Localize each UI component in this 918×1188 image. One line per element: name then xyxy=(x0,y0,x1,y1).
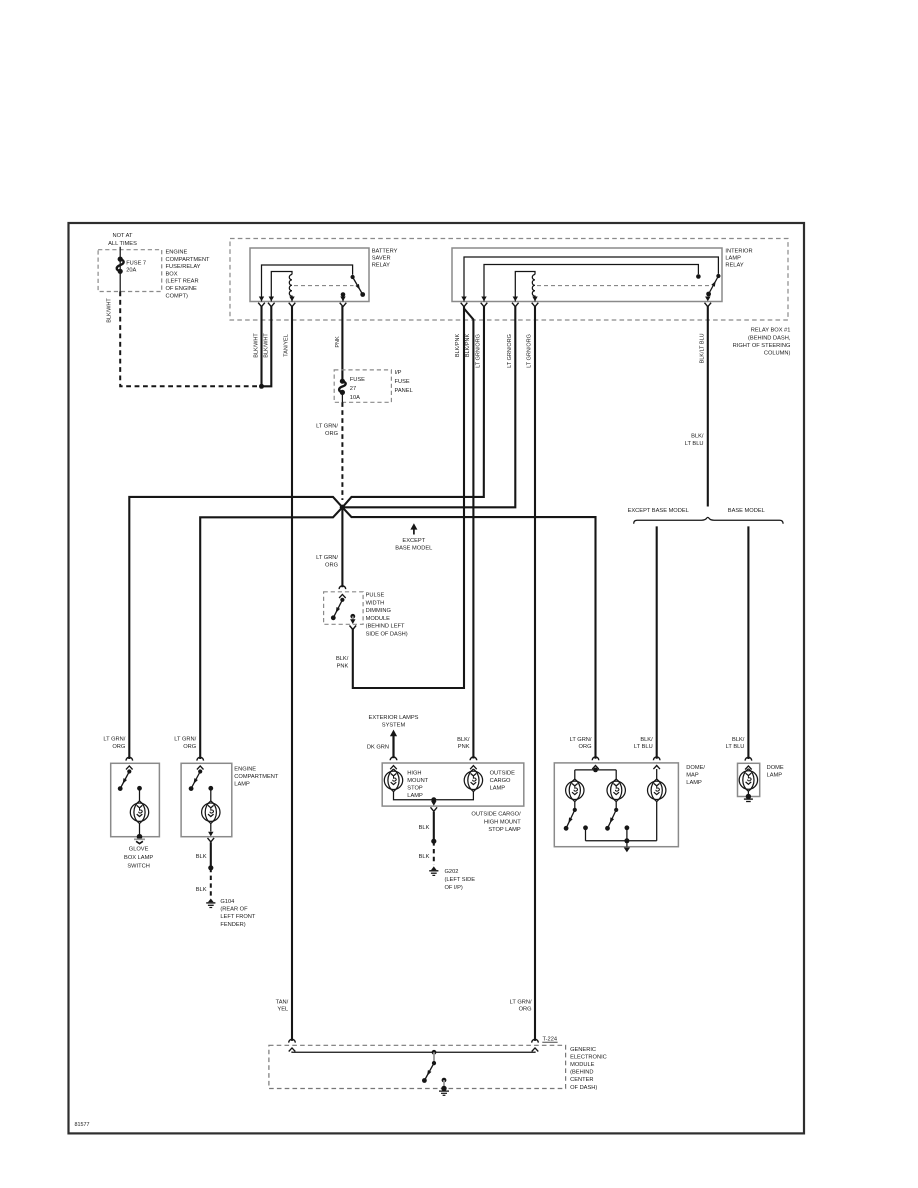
svg-text:LAMP: LAMP xyxy=(725,256,741,262)
svg-text:CARGO: CARGO xyxy=(490,778,511,784)
glove box lamp xyxy=(130,801,148,824)
svg-text:BLK/PNK: BLK/PNK xyxy=(465,334,471,358)
wire label DK GRN xyxy=(367,745,389,751)
glove box lamp switch box xyxy=(111,763,160,836)
svg-text:BLK/: BLK/ xyxy=(336,656,349,662)
wire BLK engine lamp to splice xyxy=(210,842,212,868)
svg-text:LAMP: LAMP xyxy=(767,773,783,779)
wire label LT GRN/ORG (engine lamp) xyxy=(174,737,196,751)
dome/map ground node xyxy=(624,838,630,852)
dome/map switch 1 contact xyxy=(583,825,588,840)
glove box lamp case ground xyxy=(134,824,145,844)
label RELAY BOX #1 xyxy=(733,328,791,357)
svg-text:COLUMN): COLUMN) xyxy=(764,351,791,357)
svg-text:G202: G202 xyxy=(445,869,459,875)
svg-text:LT GRN/: LT GRN/ xyxy=(570,737,592,743)
svg-text:GLOVE: GLOVE xyxy=(129,847,149,853)
battery relay actuation dashed link xyxy=(294,285,354,287)
glove box lamp top contact xyxy=(137,786,142,801)
svg-text:G104: G104 xyxy=(220,899,234,905)
svg-text:BLK/WHT: BLK/WHT xyxy=(106,298,112,323)
interior relay pin 4 xyxy=(532,297,539,307)
GEM switch xyxy=(422,1061,436,1083)
svg-text:CENTER: CENTER xyxy=(570,1077,593,1083)
svg-text:COMPT): COMPT) xyxy=(166,293,189,299)
outside cargo lamp xyxy=(464,769,482,792)
wire label BLK/LT BLU (dome/map) xyxy=(634,737,653,750)
svg-text:PNK: PNK xyxy=(337,663,349,669)
wire LT GRN/ORG to glove box switch xyxy=(129,497,342,759)
svg-text:PNK: PNK xyxy=(458,744,470,750)
label HIGH MOUNT STOP LAMP xyxy=(407,771,428,800)
high mount stop lamp xyxy=(384,769,402,792)
svg-text:RELAY: RELAY xyxy=(725,263,743,269)
engine lamp xyxy=(202,801,220,824)
fuse F7 xyxy=(117,257,124,274)
svg-text:FUSE: FUSE xyxy=(395,379,410,385)
interior relay pin 3 xyxy=(512,297,519,307)
splice BLK cargo xyxy=(431,839,436,844)
wire label BLK/PNK (cargo) xyxy=(457,737,470,750)
svg-text:MOUNT: MOUNT xyxy=(407,778,428,784)
GEM ground contact xyxy=(442,1078,447,1087)
svg-text:LT GRN/: LT GRN/ xyxy=(316,555,338,561)
wire BLK to G202 (dashed) xyxy=(433,841,435,865)
splice X junction xyxy=(340,505,345,510)
engine lamp top contact xyxy=(208,786,213,801)
svg-text:OF DASH): OF DASH) xyxy=(570,1085,597,1091)
svg-text:LT BLU: LT BLU xyxy=(685,441,704,447)
wire label TAN/YEL (bottom) xyxy=(276,999,289,1012)
svg-text:BLK/WHT: BLK/WHT xyxy=(253,333,259,358)
svg-text:ORG: ORG xyxy=(112,744,125,750)
svg-text:LT GRN/ORG: LT GRN/ORG xyxy=(527,334,533,368)
svg-text:HIGH MOUNT: HIGH MOUNT xyxy=(484,819,521,825)
svg-text:(LEFT SIDE: (LEFT SIDE xyxy=(445,877,476,883)
battery relay internal wire pin2 to coil xyxy=(271,272,292,302)
label FUSE 7 20A xyxy=(126,260,146,273)
wire LT GRN/ORG to dome/map lamp xyxy=(342,507,595,759)
wire BLK/WHT pin2 to splice xyxy=(262,306,272,386)
middle box bottom rail xyxy=(394,792,474,800)
svg-text:PANEL: PANEL xyxy=(395,388,413,394)
wire LT GRN/ORG to relay pin3 xyxy=(342,306,515,507)
dome lamp xyxy=(739,769,757,792)
svg-text:SWITCH: SWITCH xyxy=(127,864,149,870)
wire label BLK/LT BLU (dome) xyxy=(726,737,745,750)
svg-text:(BEHIND: (BEHIND xyxy=(570,1070,593,1076)
svg-text:LT GRN/ORG: LT GRN/ORG xyxy=(507,334,513,368)
wire label TAN/YEL xyxy=(284,334,290,357)
wire label LT GRN/ORG pin4 xyxy=(527,334,533,368)
interior relay stationary contact xyxy=(696,274,701,279)
svg-text:BASE MODEL: BASE MODEL xyxy=(395,546,432,552)
svg-text:COMPARTMENT: COMPARTMENT xyxy=(234,774,279,780)
svg-text:HIGH: HIGH xyxy=(407,771,421,777)
wire LT GRN/ORG to engine lamp xyxy=(200,507,342,759)
dome/map pin2 connector xyxy=(653,757,660,769)
svg-text:WIDTH: WIDTH xyxy=(366,600,385,606)
svg-text:BLK: BLK xyxy=(419,854,430,860)
battery relay pin 2 xyxy=(268,297,275,307)
wire BLK/WHT pin1 to splice xyxy=(260,306,262,386)
svg-text:ORG: ORG xyxy=(579,744,592,750)
svg-text:(BEHIND DASH,: (BEHIND DASH, xyxy=(748,335,791,341)
label EXCEPT BASE MODEL xyxy=(628,508,689,514)
wire label BLK (cargo 2) xyxy=(419,854,430,860)
wire label BLK/PNK (module) xyxy=(336,656,349,670)
splice BLK engine xyxy=(208,865,213,870)
GEM ground xyxy=(439,1086,449,1096)
dimming module switch xyxy=(331,598,345,620)
arrow to exterior lamps system xyxy=(390,730,397,759)
dimming module connector xyxy=(339,586,346,598)
wire label BLK (engine 2) xyxy=(196,887,207,893)
svg-text:ALL TIMES: ALL TIMES xyxy=(108,241,137,247)
GEM switch node xyxy=(432,1050,437,1063)
svg-text:ORG: ORG xyxy=(325,562,338,568)
svg-text:OUTSIDE: OUTSIDE xyxy=(490,771,515,777)
wire label LT GRN/ORG (bottom) xyxy=(510,999,532,1012)
generic electronic module box (dashed) xyxy=(269,1045,566,1088)
ground G202 xyxy=(429,866,438,875)
svg-text:(REAR OF: (REAR OF xyxy=(220,907,248,913)
arrow EXCEPT BASE MODEL (branch marker) xyxy=(395,523,432,551)
wire label LT GRN/ORG (dome/map) xyxy=(570,737,592,750)
svg-text:NOT AT: NOT AT xyxy=(112,233,133,239)
engine lamp switch xyxy=(189,769,203,791)
dome/map switch 2 contact xyxy=(625,825,630,840)
label DOME/MAP LAMP xyxy=(686,765,705,786)
wire label BLK/LT BLU (vertical) xyxy=(699,333,705,363)
label OUTSIDE CARGO/HIGH MOUNT STOP LAMP xyxy=(471,812,521,834)
svg-text:SAVER: SAVER xyxy=(372,256,391,262)
svg-text:LT GRN/: LT GRN/ xyxy=(174,737,196,743)
label GLOVE BOX LAMP SWITCH xyxy=(124,847,153,870)
svg-text:RIGHT OF STEERING: RIGHT OF STEERING xyxy=(733,343,791,349)
engine lamp output pin xyxy=(208,832,215,842)
svg-text:BATTERY: BATTERY xyxy=(372,248,398,254)
dome/map switch 1 xyxy=(564,802,577,831)
wire BLK to G104 (dashed) xyxy=(210,868,212,897)
interior relay pin 2 xyxy=(481,297,488,307)
wire label BLK (engine 1) xyxy=(196,854,207,860)
wire label BLK/WHT 1 xyxy=(253,333,259,358)
wire BLK/LT BLU pin5 to brace xyxy=(707,306,709,507)
svg-text:DIMMING: DIMMING xyxy=(366,608,391,614)
svg-text:EXTERIOR LAMPS: EXTERIOR LAMPS xyxy=(369,715,419,721)
battery relay pin 4 xyxy=(340,297,347,307)
interior relay pin 1 xyxy=(461,297,468,307)
wire label BLK/PNK 1 xyxy=(455,334,461,358)
interior lamp relay U-box xyxy=(452,248,722,302)
wire BLK/PNK pin1 to outside cargo lamp xyxy=(464,309,473,759)
dome/map lamp 2 xyxy=(607,779,625,802)
dome/map lamp 3 xyxy=(648,779,666,802)
svg-text:OF I/P): OF I/P) xyxy=(445,885,463,891)
svg-text:BLK/: BLK/ xyxy=(457,737,470,743)
svg-text:LT BLU: LT BLU xyxy=(726,744,745,750)
svg-text:BOX: BOX xyxy=(166,271,178,277)
svg-text:OUTSIDE CARGO/: OUTSIDE CARGO/ xyxy=(471,812,521,818)
battery relay coil xyxy=(289,275,292,302)
svg-text:LT BLU: LT BLU xyxy=(634,744,653,750)
svg-text:I/P: I/P xyxy=(395,370,402,376)
label FUSE 27 10A xyxy=(350,377,365,401)
wire LT GRN/ORG relay pin4 to GEM xyxy=(534,306,536,1041)
svg-text:DOME: DOME xyxy=(767,765,784,771)
label OUTSIDE CARGO LAMP xyxy=(490,771,515,792)
GEM internal rail xyxy=(292,1051,535,1054)
wire label LT GRN/ORG (upper) xyxy=(316,424,338,438)
svg-text:BLK: BLK xyxy=(196,887,207,893)
dome/map pin1 connector xyxy=(592,757,599,769)
svg-text:LEFT FRONT: LEFT FRONT xyxy=(220,914,255,920)
label ENGINE COMPARTMENT FUSE/RELAY BOX xyxy=(166,250,211,300)
svg-text:STOP LAMP: STOP LAMP xyxy=(488,827,521,833)
splice junction BLK/WHT xyxy=(259,384,264,389)
wire label BLK/WHT 2 xyxy=(264,333,270,358)
wire PNK relay to fuse panel xyxy=(341,306,343,380)
wire label BLK (cargo 1) xyxy=(419,825,430,831)
svg-text:10A: 10A xyxy=(350,395,360,401)
svg-text:FENDER): FENDER) xyxy=(220,922,245,928)
interior relay switch xyxy=(706,274,721,301)
high mount lamp connector xyxy=(390,757,397,769)
svg-text:INTERIOR: INTERIOR xyxy=(725,248,752,254)
dome/map lamp 1 xyxy=(566,779,584,802)
svg-text:BLK: BLK xyxy=(419,825,430,831)
svg-text:LAMP: LAMP xyxy=(407,793,423,799)
svg-text:TAN/: TAN/ xyxy=(276,999,289,1005)
label BATTERY SAVER RELAY xyxy=(372,248,398,268)
battery relay pin 1 xyxy=(258,297,265,307)
wire LT GRN/ORG to relay pin2 xyxy=(342,306,484,507)
engine compartment lamp box xyxy=(181,763,232,836)
engine lamp connector xyxy=(197,757,204,769)
wire label LT GRN/ORG pin2 xyxy=(475,334,481,368)
wire fuse7 to splice (dashed BLK/WHT) xyxy=(120,292,258,387)
svg-text:SYSTEM: SYSTEM xyxy=(382,723,406,729)
relay box #1 (dashed) xyxy=(230,239,788,321)
svg-text:LAMP: LAMP xyxy=(686,780,702,786)
interior relay actuation dashed link xyxy=(537,285,710,287)
svg-text:RELAY: RELAY xyxy=(372,263,390,269)
dome lamp box xyxy=(738,763,760,796)
svg-text:DK GRN: DK GRN xyxy=(367,745,389,751)
label BASE MODEL xyxy=(728,508,765,514)
interior relay internal wire pin3 to coil xyxy=(515,272,535,302)
svg-text:LAMP: LAMP xyxy=(234,782,250,788)
wire label LT GRN/ORG pin3 xyxy=(507,334,513,368)
wire label PNK xyxy=(335,336,341,348)
interior relay coil xyxy=(532,275,535,302)
svg-text:LT GRN/ORG: LT GRN/ORG xyxy=(475,334,481,368)
svg-text:OF ENGINE: OF ENGINE xyxy=(166,286,197,292)
battery relay switch xyxy=(351,275,366,297)
svg-text:LT GRN/: LT GRN/ xyxy=(316,424,338,430)
engine compartment fuse/relay box (dashed) xyxy=(98,250,162,292)
svg-text:MAP: MAP xyxy=(686,773,699,779)
svg-text:RELAY BOX #1: RELAY BOX #1 xyxy=(751,328,791,334)
battery relay internal wire pin1 to switch xyxy=(262,265,353,302)
wire TAN/YEL relay to GEM xyxy=(291,306,293,1041)
svg-text:LAMP: LAMP xyxy=(490,786,506,792)
svg-text:MODULE: MODULE xyxy=(570,1062,595,1068)
svg-text:BOX LAMP: BOX LAMP xyxy=(124,855,153,861)
label GENERIC ELECTRONIC MODULE xyxy=(570,1047,607,1091)
dome lamp connector xyxy=(745,757,752,769)
svg-text:BLK: BLK xyxy=(196,854,207,860)
svg-text:ENGINE: ENGINE xyxy=(166,250,188,256)
svg-text:STOP: STOP xyxy=(407,786,423,792)
svg-text:PNK: PNK xyxy=(335,336,341,348)
engine lamp bottom lead xyxy=(210,824,212,832)
glove box connector xyxy=(126,757,133,769)
wire BLK/LT BLU to dome lamp xyxy=(747,526,749,759)
svg-text:BLK/WHT: BLK/WHT xyxy=(264,333,270,358)
dome/map bottom rail xyxy=(586,802,657,841)
dimming module output node xyxy=(350,614,355,620)
svg-text:BLK/: BLK/ xyxy=(640,737,653,743)
svg-text:LT GRN/: LT GRN/ xyxy=(103,737,125,743)
border frame xyxy=(69,223,805,1133)
GEM entry connector left xyxy=(289,1039,296,1051)
svg-text:PULSE: PULSE xyxy=(366,593,385,599)
wire label LT GRN/ORG (glove) xyxy=(103,737,125,751)
glove box switch xyxy=(118,769,132,791)
dome/map switch 2 xyxy=(605,802,618,831)
wire BLK/LT BLU to dome/map lamp xyxy=(656,526,658,758)
ground G104 xyxy=(206,899,215,908)
model split brace xyxy=(634,517,783,523)
battery saver relay U-box xyxy=(250,248,369,302)
wire into fuse 7 xyxy=(119,247,121,292)
svg-text:SIDE OF DASH): SIDE OF DASH) xyxy=(366,632,408,638)
label INTERIOR LAMP RELAY xyxy=(725,248,752,268)
label G104 xyxy=(220,899,255,928)
svg-text:ORG: ORG xyxy=(183,744,196,750)
svg-text:T-224: T-224 xyxy=(543,1037,558,1043)
dome/map lamp 3 lead xyxy=(656,769,658,779)
label I/P FUSE PANEL xyxy=(395,370,413,394)
battery relay stationary contact xyxy=(341,292,346,301)
interior relay pin 5 xyxy=(705,297,712,307)
interior relay internal wire pin1 to switch xyxy=(464,257,718,302)
interior relay internal wire pin2 to contact xyxy=(484,265,698,302)
svg-text:ENGINE: ENGINE xyxy=(234,767,256,773)
svg-text:FUSE: FUSE xyxy=(350,377,365,383)
svg-text:BLK/: BLK/ xyxy=(732,737,745,743)
svg-text:EXCEPT: EXCEPT xyxy=(402,538,425,544)
svg-text:FUSE/RELAY: FUSE/RELAY xyxy=(166,264,201,270)
label ENGINE COMPARTMENT LAMP xyxy=(234,767,279,788)
svg-text:YEL: YEL xyxy=(277,1007,288,1013)
pulse width dimming module box (dashed) xyxy=(324,592,364,625)
cargo lamp connector xyxy=(470,757,477,769)
GEM entry connector right xyxy=(532,1039,539,1051)
label T-224 xyxy=(542,1037,557,1043)
svg-text:BASE MODEL: BASE MODEL xyxy=(728,508,765,514)
fuse F27 xyxy=(339,379,346,403)
label G202 xyxy=(445,869,476,891)
svg-text:GENERIC: GENERIC xyxy=(570,1047,596,1053)
dome/map lamp box xyxy=(554,763,678,847)
wire label BLK/WHT (fuse side) xyxy=(106,298,112,323)
wire LT GRN/ORG splice to dimming module xyxy=(341,507,343,587)
svg-text:EXCEPT BASE MODEL: EXCEPT BASE MODEL xyxy=(628,508,689,514)
svg-text:COMPARTMENT: COMPARTMENT xyxy=(166,257,211,263)
wire LT GRN/ORG fusepanel to splice (dashed) xyxy=(341,402,343,500)
wire label LT GRN/ORG (mid) xyxy=(316,555,338,569)
outside cargo/high mount stop lamp box xyxy=(382,763,524,806)
dome/map top rail xyxy=(575,768,616,780)
battery relay pin 3 xyxy=(289,297,296,307)
label EXTERIOR LAMPS SYSTEM xyxy=(369,715,419,729)
wire label BLK/LT BLU (horizontal) xyxy=(685,434,704,447)
svg-text:BLK/PNK: BLK/PNK xyxy=(455,334,461,358)
svg-text:BLK/: BLK/ xyxy=(691,434,704,440)
label NOT AT ALL TIMES xyxy=(108,233,137,247)
middle box output pin xyxy=(431,801,438,811)
dimming module output pin xyxy=(350,619,357,629)
svg-text:DOME/: DOME/ xyxy=(686,765,705,771)
svg-text:(BEHIND LEFT: (BEHIND LEFT xyxy=(366,624,405,630)
svg-text:81577: 81577 xyxy=(75,1122,90,1128)
svg-text:TAN/YEL: TAN/YEL xyxy=(284,334,290,357)
I/P fuse panel box (dashed) xyxy=(334,370,391,402)
label PULSE WIDTH DIMMING MODULE xyxy=(366,593,408,638)
svg-text:MODULE: MODULE xyxy=(366,616,391,622)
svg-text:20A: 20A xyxy=(126,268,136,274)
svg-text:LT GRN/: LT GRN/ xyxy=(510,999,532,1005)
label DOME LAMP xyxy=(767,765,784,779)
wire BLK/PNK pin1 to dimming module xyxy=(353,306,464,688)
wire BLK cargo to splice xyxy=(433,812,435,842)
svg-text:27: 27 xyxy=(350,386,356,392)
wire label BLK/PNK 2 xyxy=(465,334,471,358)
svg-text:(LEFT REAR: (LEFT REAR xyxy=(166,279,199,285)
svg-text:ORG: ORG xyxy=(325,431,338,437)
diagram number 81577 xyxy=(75,1122,90,1128)
dome lamp case ground xyxy=(744,791,753,801)
svg-text:ELECTRONIC: ELECTRONIC xyxy=(570,1055,607,1061)
svg-text:FUSE 7: FUSE 7 xyxy=(126,260,146,266)
middle box rail junction xyxy=(431,797,436,802)
svg-text:BLK/LT BLU: BLK/LT BLU xyxy=(699,333,705,363)
svg-text:ORG: ORG xyxy=(519,1007,532,1013)
